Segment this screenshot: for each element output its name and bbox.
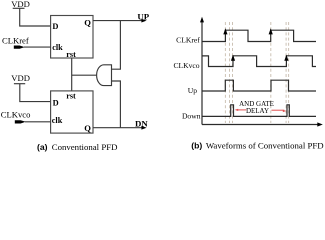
svg-text:clk: clk <box>52 43 63 52</box>
svg-text:DELAY: DELAY <box>246 107 269 115</box>
AND gate (reset), points left <box>97 65 112 86</box>
svg-text:CLKvco: CLKvco <box>173 61 199 70</box>
input CLKref <box>2 36 51 49</box>
svg-text:rst: rst <box>66 50 76 59</box>
svg-text:Q: Q <box>84 123 91 133</box>
dashed marker t2 (Down rise 1) <box>229 22 231 123</box>
wire Q1 to UP <box>93 20 142 22</box>
output DN <box>135 119 148 130</box>
axis horizontal (time) <box>202 122 323 126</box>
edge arrow CLKvco rise 2 <box>284 55 288 61</box>
output UP <box>137 11 149 22</box>
svg-text:CLKref: CLKref <box>176 36 200 45</box>
dashed marker t3 (reset fall 1) <box>232 22 234 123</box>
edge arrow CLKref rise 2 <box>269 28 273 34</box>
waveform Down <box>202 105 316 117</box>
svg-text:CLKref: CLKref <box>2 36 29 46</box>
svg-text:CLKvco: CLKvco <box>1 110 31 120</box>
svg-text:(b) Waveforms of Conventional: (b) Waveforms of Conventional PFD <box>191 140 323 150</box>
D flip-flop U1 <box>51 16 93 59</box>
input CLKvco <box>1 110 51 124</box>
red leader to Down pulse 1 <box>235 109 247 111</box>
note AND GATE DELAY <box>239 100 274 115</box>
wire rst net (U1 rst to U2 rst) <box>71 58 73 91</box>
svg-text:Up: Up <box>188 86 197 95</box>
dashed marker t1 (CLKref rise 1) <box>224 22 226 123</box>
D flip-flop U2 <box>51 91 93 133</box>
wire AND lower input to DN node <box>112 81 121 128</box>
red leader to Down pulse 2 <box>272 110 287 112</box>
waveform CLKvco <box>202 56 316 67</box>
power VDD (bottom) <box>11 73 30 84</box>
edge arrow CLKref rise 1 <box>223 28 227 34</box>
svg-text:Q: Q <box>84 18 91 28</box>
edge arrow CLKvco rise 1 <box>231 55 235 61</box>
power VDD (top) <box>11 0 30 9</box>
dashed marker t4 (CLKref rise 2) <box>270 22 272 123</box>
svg-text:VDD: VDD <box>11 0 30 9</box>
axis vertical <box>200 17 204 125</box>
svg-text:D: D <box>53 98 59 107</box>
svg-text:VDD: VDD <box>11 73 30 83</box>
waveform Up <box>202 80 316 91</box>
dashed marker t5 (CLKvco rise 2) <box>285 22 287 123</box>
wire VDD to D of U2 <box>20 84 51 102</box>
wire AND output to rst net <box>72 74 97 76</box>
svg-text:D: D <box>52 22 58 31</box>
svg-text:(a) Conventional PFD: (a) Conventional PFD <box>37 142 117 152</box>
svg-text:clk: clk <box>52 116 63 125</box>
waveform CLKref <box>202 30 316 41</box>
dashed marker t6 (reset fall 2) <box>288 22 290 123</box>
wire VDD to D of U1 <box>20 9 51 27</box>
wire Q2 to DN <box>93 127 142 129</box>
svg-text:rst: rst <box>66 91 76 100</box>
wire UP node to AND upper input <box>112 21 121 70</box>
svg-text:Down: Down <box>182 111 201 120</box>
